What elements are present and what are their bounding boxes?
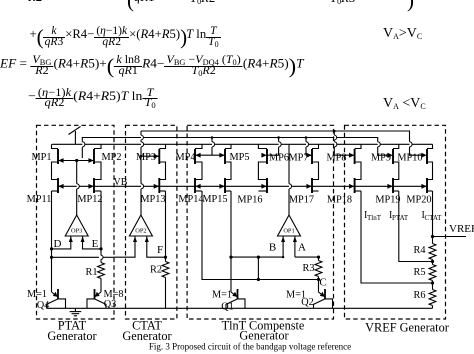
- svg-text:OP2: OP2: [135, 227, 146, 234]
- svg-text:Generator: Generator: [47, 329, 96, 343]
- BJT Q4 (M=1): [52, 292, 58, 296]
- svg-text:MP10: MP10: [397, 153, 422, 164]
- svg-text:MP7: MP7: [288, 153, 308, 164]
- OP3 output wire to MP1/MP2 gates: [76, 189, 78, 215]
- svg-text:MP12: MP12: [77, 194, 102, 205]
- MP7 gate riser from PTAT line: [305, 138, 307, 142]
- svg-text:E: E: [92, 238, 99, 250]
- svg-text:MP2: MP2: [101, 152, 121, 163]
- svg-text:R6: R6: [413, 290, 425, 301]
- ground symbol: [74, 308, 76, 311]
- svg-text:VREF Generator: VREF Generator: [365, 321, 449, 335]
- MP1-MP2 shared gate wire with node: [58, 160, 94, 162]
- svg-text:MP8: MP8: [326, 153, 346, 164]
- svg-text:Q2: Q2: [301, 297, 314, 308]
- OP3 input wires from D and E: [52, 243, 71, 249]
- OP1 output riser: [288, 189, 290, 215]
- condition VA>VC: [383, 27, 422, 41]
- transistor MP6 and MP16 column: [258, 144, 267, 148]
- svg-text:OP3: OP3: [71, 227, 82, 234]
- CTAT gate bias line (OP2 output distribution): [141, 131, 410, 142]
- svg-text:M=1: M=1: [212, 289, 232, 300]
- svg-text:MP1: MP1: [31, 152, 51, 163]
- svg-text:MP15: MP15: [202, 194, 227, 205]
- svg-text:MP17: MP17: [289, 195, 314, 206]
- svg-text:R2: R2: [150, 265, 162, 276]
- node F wire and label: [165, 191, 167, 262]
- svg-text:Q1: Q1: [221, 302, 234, 313]
- VB cascode bias line: [58, 185, 427, 187]
- TlnT generator dashed box: [187, 125, 333, 319]
- svg-text:Generator: Generator: [239, 329, 288, 343]
- transistor MP5 and MP15 column: [225, 144, 231, 148]
- svg-text:M=1: M=1: [27, 289, 47, 300]
- ground rail: [47, 307, 433, 309]
- equation line 4: [28, 89, 158, 109]
- svg-text:MP18: MP18: [327, 195, 352, 206]
- VDD supply symbol: [74, 131, 76, 144]
- MP14 drain wire to C: [202, 191, 319, 280]
- transistor MP10 and MP20 column: [427, 144, 433, 148]
- MP8 gate riser from CTAT line: [333, 131, 335, 135]
- MP20 drain wire (I_CTAT): [432, 191, 434, 237]
- PTAT generator dashed box: [37, 125, 115, 319]
- svg-text:R4: R4: [413, 245, 425, 256]
- MP4 MP5 gate riser from PTAT line: [211, 138, 213, 142]
- transistor MP1 and MP11 column: [52, 144, 59, 148]
- MP9 gate arrow: [387, 153, 392, 158]
- VREF output node and wire: [431, 235, 434, 238]
- svg-text:C: C: [319, 277, 326, 289]
- svg-text:MP19: MP19: [375, 195, 400, 206]
- node E wire: [100, 191, 102, 263]
- shared wire D to OP2 input: [52, 256, 99, 258]
- CTAT generator dashed box: [126, 125, 177, 319]
- svg-text:R3: R3: [302, 263, 314, 274]
- BJT Q1 (M=1): [231, 292, 237, 296]
- transistor MP7 and MP17 column: [312, 144, 319, 148]
- svg-text:MP16: MP16: [237, 195, 262, 206]
- transistor MP4 and MP14 column: [195, 144, 202, 148]
- OP2 input wires: [114, 243, 135, 257]
- OP2 output riser to MP3 gate and CTAT line: [140, 189, 142, 215]
- svg-text:F: F: [157, 244, 163, 256]
- node B wire: [231, 256, 283, 258]
- svg-text:D: D: [54, 238, 62, 250]
- svg-text:TlnT: TlnT: [367, 214, 382, 222]
- svg-text:B: B: [269, 242, 276, 254]
- svg-text:OP1: OP1: [283, 227, 294, 234]
- MP16 drain drop wire: [257, 257, 259, 279]
- VREF generator dashed box: [345, 125, 446, 319]
- svg-text:MP14: MP14: [178, 194, 203, 205]
- svg-text:MP13: MP13: [140, 194, 165, 205]
- svg-text:MP5: MP5: [229, 152, 249, 163]
- svg-text:R1: R1: [85, 267, 97, 278]
- transistor MP3 and MP13 column: [159, 144, 165, 148]
- MP10 gate arrow: [421, 153, 426, 158]
- VDD rail wire: [52, 143, 433, 145]
- svg-text:CTAT: CTAT: [425, 214, 443, 222]
- op-amp OP2 (CTAT): [129, 215, 152, 236]
- svg-text:A: A: [298, 242, 306, 254]
- svg-text:MP9: MP9: [371, 153, 391, 164]
- transistor MP9 and MP19 column: [393, 144, 399, 148]
- node C: [317, 278, 320, 281]
- op-amp OP1 (TlnT): [278, 215, 301, 236]
- BJT Q2 (M=1): [319, 280, 325, 297]
- MP3 gate wire from OP2 riser: [141, 155, 159, 157]
- svg-text:VREF: VREF: [449, 223, 474, 235]
- equation line 3: [0, 56, 304, 78]
- svg-text:MP20: MP20: [406, 195, 431, 206]
- MP6 gate riser from PTAT line: [278, 138, 280, 142]
- svg-text:MP4: MP4: [175, 152, 195, 163]
- equation line 2: [30, 27, 221, 48]
- svg-text:PTAT: PTAT: [392, 214, 409, 222]
- svg-text:Q4: Q4: [37, 300, 50, 311]
- svg-text:R5: R5: [413, 267, 425, 278]
- svg-text:VB: VB: [114, 177, 128, 188]
- equation fragment row (cut off at top): [28, 0, 42, 4]
- node A wire: [295, 256, 319, 258]
- node D wire: [51, 191, 53, 292]
- svg-text:Fig. 3 Proposed circuit of the: Fig. 3 Proposed circuit of the bandgap v…: [149, 342, 351, 352]
- resistor R6: [432, 283, 434, 290]
- MP18 drain wire (I_TlnT): [361, 191, 433, 283]
- resistor R4: [432, 237, 434, 244]
- svg-text:MP11: MP11: [27, 194, 52, 205]
- MP19 drain wire (I_PTAT): [399, 191, 433, 262]
- OP1 input wires from B and A: [282, 243, 284, 257]
- resistor R5: [432, 262, 434, 265]
- BJT Q3 (M=8): [95, 292, 101, 296]
- resistor R3: [318, 257, 320, 260]
- transistor MP2 and MP12 column: [94, 144, 101, 148]
- condition VA<VC: [383, 97, 426, 111]
- resistor R2: [162, 262, 169, 278]
- MP15 drain / Q1 emitter riser: [230, 191, 232, 292]
- transistor MP8 and MP18 column: [355, 144, 361, 148]
- svg-text:MP6: MP6: [269, 153, 289, 164]
- svg-text:MP3: MP3: [136, 152, 156, 163]
- op-amp OP3 (PTAT): [65, 215, 88, 236]
- resistor R1: [98, 263, 105, 279]
- PTAT gate bias line (OP3 output distribution): [81, 147, 83, 158]
